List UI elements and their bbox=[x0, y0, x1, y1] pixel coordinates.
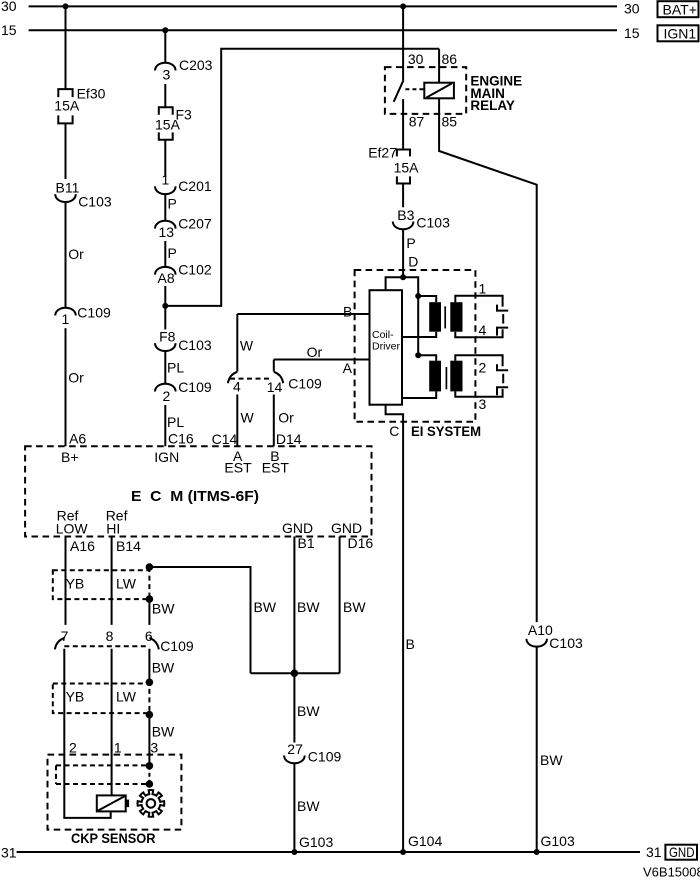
wire secondary 2 top to plug 2 bbox=[455, 355, 502, 366]
node junction G104 bbox=[400, 849, 406, 855]
CKP SENSOR dashed box bbox=[48, 755, 182, 830]
svg-text:15A: 15A bbox=[394, 160, 420, 176]
svg-text:BW: BW bbox=[297, 599, 320, 615]
svg-text:C201: C201 bbox=[178, 178, 212, 194]
svg-text:P: P bbox=[168, 196, 177, 212]
CKP pickup coil box bbox=[97, 795, 126, 811]
svg-text:P: P bbox=[406, 235, 415, 251]
svg-text:IGN1: IGN1 bbox=[664, 26, 697, 42]
node junction bus30/col1 bbox=[63, 3, 69, 9]
svg-text:8: 8 bbox=[106, 628, 114, 644]
svg-text:Ef27: Ef27 bbox=[368, 144, 397, 160]
CKP pickup coil diagonal bbox=[98, 796, 125, 810]
svg-text:W: W bbox=[241, 409, 255, 425]
svg-text:LOW: LOW bbox=[56, 521, 89, 537]
svg-text:BW: BW bbox=[254, 599, 277, 615]
svg-text:B: B bbox=[343, 304, 352, 320]
svg-text:86: 86 bbox=[442, 51, 458, 67]
svg-text:C109: C109 bbox=[77, 305, 111, 321]
spark plug 3 electrode bbox=[497, 387, 508, 395]
wire pin C of coil driver bbox=[386, 405, 404, 422]
transformer T1 core bbox=[444, 306, 446, 328]
ECM (ITMS-6F) dashed box bbox=[25, 446, 371, 536]
svg-text:3: 3 bbox=[150, 740, 158, 756]
wire EST A from coil driver B down bbox=[236, 314, 238, 372]
svg-text:BW: BW bbox=[343, 599, 366, 615]
wire col2 PL segment bbox=[164, 351, 166, 384]
wire CKP pin2 lead bbox=[64, 649, 110, 818]
svg-text:HI: HI bbox=[106, 521, 120, 537]
svg-text:YB: YB bbox=[66, 689, 85, 705]
svg-text:Or: Or bbox=[307, 344, 323, 360]
svg-text:C102: C102 bbox=[178, 262, 212, 278]
connector 2 C109 bbox=[155, 379, 212, 404]
node junction pin D bbox=[400, 274, 406, 280]
relay coil diagonal bbox=[427, 84, 452, 98]
svg-text:D16: D16 bbox=[348, 535, 374, 551]
wire shield drain to ground bbox=[149, 567, 250, 673]
svg-text:2: 2 bbox=[163, 388, 171, 404]
transformer T2 secondary winding bbox=[450, 361, 462, 392]
svg-text:C109: C109 bbox=[178, 379, 212, 395]
svg-text:C203: C203 bbox=[179, 57, 213, 73]
fuse F3 15A bbox=[155, 106, 192, 139]
svg-text:EST: EST bbox=[224, 460, 252, 476]
svg-text:87: 87 bbox=[409, 113, 425, 129]
svg-text:BW: BW bbox=[152, 723, 175, 739]
svg-text:CKP SENSOR: CKP SENSOR bbox=[71, 830, 156, 846]
node junction bus15/col2 bbox=[162, 27, 168, 33]
wire pin A of coil driver bbox=[274, 359, 370, 361]
net box BAT+ bbox=[658, 1, 699, 17]
svg-text:LW: LW bbox=[116, 689, 137, 705]
wire col1 from bus30 to fuse Ef30 bbox=[65, 6, 67, 89]
svg-text:C103: C103 bbox=[178, 337, 212, 353]
svg-text:B+: B+ bbox=[61, 449, 79, 465]
connector B3 C103 bbox=[393, 207, 450, 231]
connector 13 C207 bbox=[155, 216, 212, 240]
svg-text:B3: B3 bbox=[397, 207, 414, 223]
connector A10 C103 bbox=[526, 622, 583, 651]
shield dashed box YB/LW upper bbox=[53, 567, 150, 599]
net box IGN1 bbox=[658, 25, 699, 41]
svg-text:E C M (ITMS-6F): E C M (ITMS-6F) bbox=[131, 488, 259, 505]
svg-text:D14: D14 bbox=[276, 431, 302, 447]
svg-text:A: A bbox=[343, 360, 353, 376]
wire secondary 1 top to plug 1 bbox=[455, 296, 502, 307]
node junction G103 right bbox=[534, 849, 540, 855]
svg-text:C109: C109 bbox=[288, 376, 322, 392]
connector 27 C109 bbox=[284, 741, 341, 765]
svg-text:85: 85 bbox=[442, 113, 458, 129]
wire relay pin 87 bbox=[402, 99, 404, 149]
wire col1 fuse to connector B11 bbox=[65, 123, 67, 179]
wire CKP shield dashed bbox=[148, 766, 150, 784]
connector B11 C103 bbox=[55, 180, 112, 210]
svg-text:G104: G104 bbox=[408, 833, 442, 849]
wire bus 30 bbox=[29, 5, 617, 7]
svg-text:RELAY: RELAY bbox=[470, 98, 515, 113]
node junction B1/ground tie bbox=[291, 669, 299, 677]
svg-text:LW: LW bbox=[116, 575, 137, 591]
node junction bus30/relay30 bbox=[400, 3, 406, 9]
CKP internal shield dashed box bbox=[56, 765, 149, 784]
svg-text:C103: C103 bbox=[416, 215, 450, 231]
wire D16 GND bbox=[339, 537, 341, 674]
wire CKP pin3 shield lead bbox=[148, 649, 150, 683]
svg-text:3: 3 bbox=[163, 66, 171, 82]
svg-text:C16: C16 bbox=[168, 431, 194, 447]
node junction shield bottom bbox=[146, 595, 154, 603]
EI SYSTEM dashed box bbox=[355, 270, 476, 422]
op-amp U1 Coil-Driver box bbox=[370, 290, 403, 405]
relay switch blade bbox=[394, 80, 404, 102]
svg-text:A6: A6 bbox=[69, 431, 86, 447]
svg-text:B14: B14 bbox=[116, 538, 141, 554]
node junction CKP shield top bbox=[146, 762, 154, 770]
svg-text:GND: GND bbox=[669, 844, 695, 860]
wire P segment to EI system pin D bbox=[402, 229, 404, 277]
wire C to ground G104 bbox=[402, 422, 404, 852]
svg-text:C103: C103 bbox=[549, 635, 583, 651]
svg-text:13: 13 bbox=[159, 224, 175, 240]
svg-text:BW: BW bbox=[297, 798, 320, 814]
svg-text:2: 2 bbox=[69, 740, 77, 756]
svg-text:W: W bbox=[240, 338, 254, 354]
svg-text:2: 2 bbox=[479, 359, 487, 375]
svg-text:GND: GND bbox=[331, 520, 362, 536]
connector A8 C102 bbox=[155, 262, 212, 287]
connector 7/8/6 C109 bbox=[55, 628, 194, 654]
CKP gear hub bbox=[147, 799, 156, 808]
svg-text:BW: BW bbox=[152, 660, 175, 676]
wire fuse Ef27 to connector B3 bbox=[402, 184, 404, 208]
svg-text:BW: BW bbox=[540, 752, 563, 768]
svg-text:D: D bbox=[408, 253, 418, 269]
node junction G103 bbox=[291, 849, 297, 855]
wire spark gap link 2 bbox=[502, 374, 504, 384]
svg-text:4: 4 bbox=[233, 379, 241, 395]
wire col2 P segment bbox=[164, 194, 166, 221]
svg-text:BAT+: BAT+ bbox=[663, 2, 697, 18]
relay coil box bbox=[424, 83, 454, 99]
svg-text:B: B bbox=[406, 636, 415, 652]
svg-text:Or: Or bbox=[68, 370, 84, 386]
relay title ENGINE MAIN RELAY bbox=[470, 74, 522, 113]
wire secondary 2 bottom to plug 3 bbox=[455, 389, 502, 397]
connector 1 C201 bbox=[155, 172, 212, 195]
svg-text:15: 15 bbox=[1, 22, 17, 38]
connector 3 C203 bbox=[155, 57, 213, 82]
wire col1 Or segment 2 bbox=[65, 328, 67, 446]
svg-text:1: 1 bbox=[62, 311, 70, 327]
net box GND bbox=[665, 844, 697, 860]
connector 4/14 C109 bbox=[228, 372, 322, 395]
svg-text:C207: C207 bbox=[178, 216, 212, 232]
wire CKP pin1 lead bbox=[111, 649, 113, 796]
relay K1 ENGINE MAIN RELAY dashed box bbox=[385, 67, 466, 114]
node junction shield 2 top bbox=[146, 679, 154, 687]
svg-text:BW: BW bbox=[152, 600, 175, 616]
CKP pole piece bbox=[126, 800, 129, 808]
wire EST A to ECM C14 bbox=[236, 395, 238, 447]
wire col2 fuse to connector C201 bbox=[164, 140, 166, 177]
svg-text:7: 7 bbox=[61, 628, 69, 644]
svg-text:31: 31 bbox=[1, 845, 17, 861]
wire spark gap link 1 bbox=[502, 314, 504, 324]
wire shield col to connector 6 bbox=[148, 599, 150, 625]
wire pin B of coil driver bbox=[237, 313, 369, 315]
node junction primary 1 feed bbox=[415, 293, 421, 299]
svg-text:30: 30 bbox=[1, 0, 17, 14]
svg-text:30: 30 bbox=[624, 1, 640, 17]
wire ground tie bbox=[251, 672, 340, 674]
svg-text:YB: YB bbox=[66, 575, 85, 591]
svg-text:C109: C109 bbox=[160, 638, 194, 654]
wire secondary 1 bottom to plug 4 bbox=[455, 329, 502, 337]
svg-text:GND: GND bbox=[282, 520, 313, 536]
CKP reluctor gear bbox=[138, 790, 165, 817]
svg-text:A16: A16 bbox=[70, 538, 95, 554]
svg-text:3: 3 bbox=[479, 396, 487, 412]
wire relay coil feed from junction up and over to pin 86 bbox=[165, 49, 439, 306]
svg-text:27: 27 bbox=[287, 741, 303, 757]
connector F8 C103 bbox=[155, 329, 212, 354]
wire col1 Or segment bbox=[65, 202, 67, 308]
svg-text:15: 15 bbox=[624, 25, 640, 41]
svg-text:IGN: IGN bbox=[154, 449, 179, 465]
svg-text:F8: F8 bbox=[159, 329, 176, 345]
wire bus 31 bbox=[17, 851, 640, 853]
fuse Ef30 15A bbox=[54, 85, 105, 123]
svg-text:1: 1 bbox=[114, 740, 122, 756]
svg-text:Coil-: Coil- bbox=[372, 329, 394, 341]
svg-text:PL: PL bbox=[167, 359, 184, 375]
node junction col2/relay feed bbox=[162, 303, 168, 309]
wire relay pin 85 down diagonal to right column bbox=[439, 98, 537, 622]
transformer T2 primary winding bbox=[429, 361, 441, 392]
svg-text:C: C bbox=[389, 423, 399, 439]
node junction primary 2 feed bbox=[415, 352, 421, 358]
wire col2 to fuse F3 bbox=[164, 84, 166, 107]
relay actuator dashed link bbox=[405, 88, 423, 90]
svg-text:P: P bbox=[168, 245, 177, 261]
svg-text:1: 1 bbox=[162, 172, 170, 188]
node junction shield 2 bottom bbox=[146, 711, 154, 719]
svg-text:6: 6 bbox=[145, 628, 153, 644]
svg-text:14: 14 bbox=[267, 379, 283, 395]
svg-text:C109: C109 bbox=[308, 749, 342, 765]
svg-text:31: 31 bbox=[646, 844, 662, 860]
svg-text:Driver: Driver bbox=[372, 341, 401, 353]
wire right column to G103 bbox=[536, 647, 538, 852]
svg-text:B1: B1 bbox=[298, 535, 315, 551]
connector 1 C109 bbox=[55, 305, 111, 327]
svg-text:15A: 15A bbox=[155, 117, 181, 133]
svg-text:Or: Or bbox=[278, 409, 294, 425]
wire primary 1 bottom feed bbox=[402, 332, 436, 337]
shield dashed box YB/LW lower bbox=[53, 684, 150, 714]
svg-text:Ef30: Ef30 bbox=[77, 85, 106, 101]
transformer T1 primary winding bbox=[429, 302, 441, 332]
svg-text:30: 30 bbox=[408, 51, 424, 67]
svg-text:G103: G103 bbox=[541, 833, 575, 849]
wire B1 GND lower to G103 bbox=[293, 763, 295, 852]
svg-text:BW: BW bbox=[297, 703, 320, 719]
svg-text:C103: C103 bbox=[78, 194, 112, 210]
svg-text:Or: Or bbox=[68, 246, 84, 262]
wire primary 2 bottom feed bbox=[402, 391, 436, 398]
wire EST B from coil driver A down bbox=[273, 360, 275, 372]
wire col2 PL segment 2 bbox=[164, 405, 166, 446]
wire EST B to ECM D14 bbox=[273, 395, 275, 447]
transformer T2 core bbox=[445, 367, 447, 389]
wire D to primary feeds bbox=[403, 277, 418, 355]
svg-text:4: 4 bbox=[479, 322, 487, 338]
wire relay pin 86 bbox=[438, 49, 440, 83]
svg-text:B11: B11 bbox=[56, 180, 80, 196]
node junction shield top bbox=[146, 563, 154, 571]
wire B1 GND upper bbox=[293, 537, 295, 743]
fuse Ef27 15A bbox=[368, 144, 419, 183]
wire shield to CKP bbox=[148, 715, 150, 766]
svg-text:EI SYSTEM: EI SYSTEM bbox=[411, 423, 481, 439]
wire col2 to junction bbox=[164, 286, 166, 329]
wire bus 15 bbox=[29, 29, 617, 31]
svg-text:1: 1 bbox=[479, 280, 487, 296]
svg-text:PL: PL bbox=[167, 414, 184, 430]
svg-text:15A: 15A bbox=[54, 97, 80, 113]
spark plug 2 electrode bbox=[497, 364, 508, 370]
wire D to coil-driver top bbox=[386, 277, 404, 290]
svg-text:A8: A8 bbox=[158, 270, 175, 286]
wire primary 2 top feed bbox=[418, 355, 436, 360]
svg-text:V6B15008: V6B15008 bbox=[643, 865, 700, 880]
wire primary 1 top feed bbox=[418, 296, 436, 302]
svg-text:EST: EST bbox=[262, 460, 290, 476]
wire A16 Ref LOW bbox=[65, 537, 67, 625]
svg-text:C14: C14 bbox=[212, 431, 238, 447]
node junction CKP shield bottom bbox=[146, 780, 154, 788]
wire relay pin 30 from bus30 bbox=[402, 6, 404, 80]
spark plug 1 electrode bbox=[497, 305, 508, 311]
svg-text:G103: G103 bbox=[299, 834, 333, 850]
wire B14 Ref HI bbox=[111, 537, 113, 625]
transformer T1 secondary winding bbox=[450, 302, 462, 332]
wire col2 from bus15 to connector C203 bbox=[164, 30, 166, 63]
wire col2 P segment 2 bbox=[164, 241, 166, 267]
spark plug 4 electrode bbox=[497, 328, 508, 336]
